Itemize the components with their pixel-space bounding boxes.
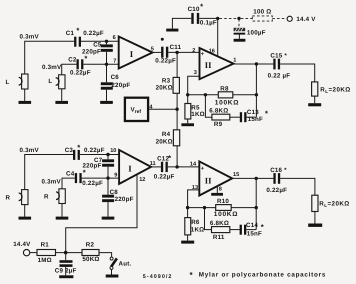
resistor RL (top) 20K bbox=[312, 82, 351, 103]
svg-text:R6: R6 bbox=[191, 219, 200, 226]
wire L1 top horizontal bbox=[25, 41, 74, 74]
svg-text:0.22µF: 0.22µF bbox=[155, 57, 176, 64]
microphone R2 bbox=[44, 189, 65, 204]
wire Vref to node bbox=[148, 108, 177, 110]
svg-text:C9 2µF: C9 2µF bbox=[55, 267, 77, 274]
svg-text:50KΩ: 50KΩ bbox=[82, 256, 99, 263]
svg-text:20KΩ: 20KΩ bbox=[156, 138, 173, 145]
pin8 ground stub bbox=[216, 187, 218, 193]
capacitor 100uF electrolytic bbox=[234, 19, 266, 39]
svg-text:RL=20KΩ: RL=20KΩ bbox=[319, 201, 349, 209]
resistor R9 6.8K + capacitor C13 15nF bbox=[205, 95, 268, 128]
svg-text:*: * bbox=[265, 109, 268, 118]
svg-text:+: + bbox=[201, 166, 205, 172]
wire C3 to pin10 bbox=[80, 154, 119, 156]
ground (mic L2) bbox=[55, 101, 68, 104]
wire opamp II(R) out bbox=[232, 177, 273, 179]
wire C15 to RL bbox=[280, 64, 315, 82]
svg-text:C16 *: C16 * bbox=[270, 167, 287, 174]
wire opamp I(R) out to C12 bbox=[151, 166, 161, 168]
resistor R3 20K bbox=[156, 52, 180, 109]
svg-text:C6: C6 bbox=[111, 74, 120, 81]
wire R1 top horizontal bbox=[25, 155, 73, 190]
svg-text:12: 12 bbox=[139, 177, 145, 183]
svg-text:1KΩ: 1KΩ bbox=[191, 111, 205, 118]
wire pin13 bbox=[188, 190, 200, 208]
svg-text:3: 3 bbox=[194, 70, 197, 76]
svg-text:C2: C2 bbox=[68, 57, 77, 64]
svg-text:R9: R9 bbox=[214, 121, 223, 128]
svg-text:*: * bbox=[76, 26, 79, 35]
op-amp I (L) bbox=[113, 35, 154, 69]
capacitor C11 0.22uF bbox=[155, 38, 181, 65]
wire fb vertical (top) bbox=[255, 64, 257, 117]
node fb right (bottom) bbox=[255, 206, 258, 209]
wire C4 to pin9 bbox=[82, 177, 119, 179]
capacitor C3 0.22uF bbox=[65, 143, 105, 160]
svg-text:C4: C4 bbox=[66, 171, 75, 178]
node C5 tap bbox=[105, 40, 108, 43]
svg-text:0.3mV: 0.3mV bbox=[42, 64, 62, 71]
svg-text:220pF: 220pF bbox=[115, 196, 134, 203]
svg-text:220pF: 220pF bbox=[111, 82, 130, 89]
capacitor C6 220pF bbox=[101, 64, 131, 101]
wire mic L1 to ground bbox=[24, 89, 26, 101]
wire pin12 to bias node bbox=[66, 175, 137, 253]
capacitor C9 2uF bbox=[55, 253, 77, 276]
svg-text:16: 16 bbox=[209, 49, 215, 55]
node fb B (bottom) bbox=[203, 206, 206, 209]
svg-text:0.3mV: 0.3mV bbox=[20, 34, 40, 41]
svg-text:0.22 µF: 0.22 µF bbox=[268, 73, 291, 80]
ground (mic R2) bbox=[56, 217, 69, 220]
svg-text:*: * bbox=[168, 154, 171, 163]
svg-text:10: 10 bbox=[110, 148, 116, 154]
capacitor C16 0.22uF bbox=[266, 167, 287, 194]
capacitor C1 0.22uF bbox=[66, 26, 104, 47]
node out (bottom) bbox=[255, 177, 258, 180]
svg-text:R4: R4 bbox=[162, 131, 171, 138]
svg-text:6: 6 bbox=[113, 35, 116, 41]
svg-text:*: * bbox=[77, 143, 80, 152]
wire mic L2 to C2 bbox=[62, 64, 77, 75]
svg-text:Aut.: Aut. bbox=[119, 260, 132, 267]
node fb A (bottom) bbox=[186, 206, 189, 209]
svg-text:100 Ω: 100 Ω bbox=[253, 9, 271, 16]
svg-text:1KΩ: 1KΩ bbox=[191, 227, 205, 234]
svg-text:RL=20KΩ: RL=20KΩ bbox=[320, 87, 350, 95]
op-amp II (L) bbox=[192, 48, 236, 79]
resistor RL (bottom) 20K bbox=[312, 195, 350, 223]
svg-text:R1: R1 bbox=[41, 241, 50, 248]
capacitor C8 220pF bbox=[102, 178, 133, 217]
ground (C8) bbox=[102, 217, 115, 220]
resistor R2 50K bbox=[82, 241, 100, 263]
svg-text:14.4V: 14.4V bbox=[13, 241, 31, 248]
svg-text:0.3mV: 0.3mV bbox=[42, 179, 62, 186]
svg-text:C3: C3 bbox=[65, 147, 74, 154]
svg-text:R3: R3 bbox=[162, 77, 171, 84]
svg-text:7: 7 bbox=[113, 59, 116, 65]
node rail 100uF bbox=[237, 17, 240, 20]
svg-text:II: II bbox=[205, 60, 212, 70]
capacitor C5 220pF bbox=[82, 41, 113, 64]
resistor R10 100K bbox=[214, 198, 256, 218]
svg-text:1: 1 bbox=[233, 57, 236, 63]
wire fb vertical (bottom) bbox=[255, 178, 257, 229]
svg-text:R10: R10 bbox=[217, 198, 229, 205]
svg-text:9: 9 bbox=[114, 173, 117, 179]
svg-text:L: L bbox=[48, 78, 52, 85]
node Vref bbox=[175, 108, 178, 111]
resistor R11 6.8K + capacitor C14 15nF bbox=[205, 208, 264, 242]
wire C16 to RL bbox=[280, 178, 315, 195]
node R3 top bbox=[175, 51, 178, 54]
node bias bbox=[64, 251, 68, 255]
svg-text:0.22µF: 0.22µF bbox=[84, 147, 105, 154]
svg-text:15: 15 bbox=[233, 172, 239, 178]
svg-text:0.22µF: 0.22µF bbox=[83, 30, 104, 37]
capacitor C12 0.22uF bbox=[154, 154, 175, 181]
wire fb to R10 bbox=[188, 207, 216, 209]
svg-text:R8: R8 bbox=[220, 85, 229, 92]
svg-text:0.22µF: 0.22µF bbox=[266, 187, 287, 194]
svg-text:6.8KΩ: 6.8KΩ bbox=[210, 220, 229, 227]
ground (RL top) bbox=[308, 103, 321, 106]
ground (C9) bbox=[59, 275, 73, 278]
svg-text:0.22µF: 0.22µF bbox=[154, 173, 175, 180]
capacitor C2 0.22uF bbox=[68, 54, 91, 76]
svg-text:R2: R2 bbox=[86, 241, 95, 248]
node C8 tap bbox=[106, 176, 109, 179]
svg-text:5: 5 bbox=[151, 46, 154, 52]
wire opamp I out to C11 bbox=[153, 51, 162, 53]
resistor 100ohm (dashed) bbox=[241, 9, 287, 21]
svg-text:C10: C10 bbox=[188, 6, 200, 13]
wire 14.4V to R1 bbox=[30, 252, 37, 254]
wire mic L2 to ground bbox=[61, 89, 63, 101]
svg-text:20KΩ: 20KΩ bbox=[156, 85, 173, 92]
svg-text:I: I bbox=[130, 49, 134, 59]
capacitor C15 0.22uF bbox=[268, 53, 291, 80]
node fb A (top) bbox=[186, 93, 189, 96]
svg-text:+: + bbox=[201, 51, 205, 57]
ground (C6) bbox=[100, 101, 113, 104]
ground (R6) bbox=[181, 241, 194, 244]
switch Aut. bbox=[110, 257, 131, 274]
wire C10 left to ground bbox=[172, 18, 191, 28]
ground (pin8) bbox=[211, 193, 223, 196]
wire pin16 to rail bbox=[217, 18, 219, 56]
ground (100uF) bbox=[234, 39, 246, 42]
ground (R5) bbox=[181, 123, 194, 126]
svg-text:*: * bbox=[83, 168, 86, 177]
svg-text:0.22µF: 0.22µF bbox=[82, 180, 103, 187]
wire R1 to node bbox=[56, 252, 83, 254]
svg-text:C11: C11 bbox=[170, 44, 182, 51]
ground (RL bottom) bbox=[308, 224, 322, 227]
microphone L1 bbox=[6, 74, 29, 89]
wire C11 to pin2 bbox=[168, 51, 199, 53]
node R4 bottom bbox=[175, 165, 178, 168]
wire pin3 bbox=[188, 76, 200, 95]
ground (switch) bbox=[106, 275, 119, 278]
node C6 tap bbox=[105, 63, 108, 66]
node out (top) bbox=[255, 62, 258, 65]
node rail pin16 bbox=[216, 17, 219, 20]
wire C12 to pin14 bbox=[168, 166, 200, 168]
svg-text:5-4090/2: 5-4090/2 bbox=[143, 274, 173, 280]
supply terminal 14.4V (bottom) bbox=[13, 241, 31, 256]
node fb B (top) bbox=[204, 93, 207, 96]
svg-text:R: R bbox=[6, 194, 11, 201]
wire C10 to pin16 node bbox=[199, 17, 218, 19]
svg-text:*: * bbox=[190, 271, 194, 280]
node C7 tap bbox=[106, 153, 109, 156]
capacitor C4 0.22uF bbox=[66, 168, 103, 187]
svg-text:1MΩ: 1MΩ bbox=[38, 257, 52, 264]
wire fb to R8 bbox=[188, 94, 219, 96]
svg-text:0.1µF: 0.1µF bbox=[200, 20, 217, 27]
svg-text:14.4 V: 14.4 V bbox=[296, 16, 316, 23]
svg-text:100KΩ: 100KΩ bbox=[215, 99, 239, 106]
svg-text:6.8KΩ: 6.8KΩ bbox=[209, 108, 228, 115]
node fb right (top) bbox=[255, 93, 258, 96]
wire C2 to pin7 bbox=[83, 63, 118, 65]
svg-text:*: * bbox=[84, 54, 87, 63]
capacitor C10 0.1uF bbox=[188, 2, 217, 27]
svg-text:C1: C1 bbox=[66, 30, 75, 37]
svg-text:C15 *: C15 * bbox=[270, 53, 287, 60]
svg-text:4: 4 bbox=[149, 105, 153, 111]
resistor R6 1K bbox=[185, 208, 205, 241]
resistor R5 1K bbox=[185, 95, 205, 124]
microphone R1 bbox=[6, 190, 29, 205]
capacitor C7 220pF bbox=[83, 155, 115, 179]
supply terminal 14.4V bbox=[287, 16, 316, 23]
svg-text:0.3mV: 0.3mV bbox=[20, 147, 40, 154]
svg-text:Mylar or polycarbonate capaci: Mylar or polycarbonate capacitors bbox=[199, 272, 326, 279]
svg-text:8: 8 bbox=[219, 186, 222, 192]
wire C1 to pin6 bbox=[81, 40, 119, 42]
svg-text:14: 14 bbox=[190, 162, 197, 168]
svg-text:*: * bbox=[200, 2, 203, 11]
op-amp II (R) bbox=[190, 161, 239, 195]
svg-text:R11: R11 bbox=[213, 234, 225, 241]
supply: ground (C10) bbox=[166, 29, 178, 32]
svg-text:2: 2 bbox=[192, 48, 195, 54]
resistor R1 1M bbox=[37, 241, 56, 264]
svg-text:L: L bbox=[6, 79, 10, 86]
svg-text:R: R bbox=[44, 194, 49, 201]
resistor R4 20K bbox=[156, 109, 180, 167]
wire opamp II out bbox=[234, 63, 274, 65]
op-amp I (R) bbox=[110, 148, 155, 184]
wire mic R2 to ground bbox=[61, 204, 63, 217]
svg-text:15nF: 15nF bbox=[247, 230, 262, 237]
ground (mic R1) bbox=[19, 217, 32, 220]
wire mic R2 to C4 bbox=[62, 178, 75, 189]
svg-text:11: 11 bbox=[150, 161, 156, 167]
svg-text:II: II bbox=[205, 175, 212, 185]
wire mic R1 to ground bbox=[24, 205, 26, 217]
Vref box bbox=[125, 98, 153, 121]
svg-text:I: I bbox=[128, 164, 132, 174]
svg-text:0.22µF: 0.22µF bbox=[70, 69, 91, 76]
resistor R8 100K bbox=[215, 85, 257, 106]
svg-text:100µF: 100µF bbox=[247, 29, 266, 36]
microphone L2 bbox=[48, 75, 65, 89]
ground (mic L1) bbox=[19, 101, 32, 104]
svg-text:100KΩ: 100KΩ bbox=[214, 211, 238, 218]
svg-text:*: * bbox=[261, 222, 264, 231]
svg-text:15nF: 15nF bbox=[248, 116, 263, 123]
wire R2 to switch bbox=[99, 253, 112, 258]
wire rail dashed to 100uF bbox=[220, 17, 240, 19]
